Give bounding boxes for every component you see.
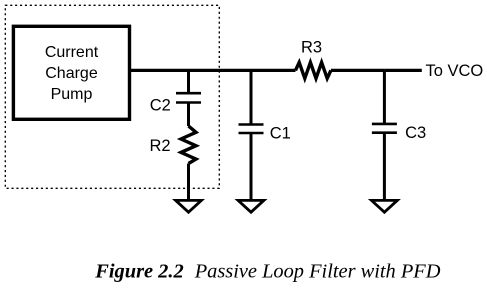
svg-text:R2: R2 <box>150 137 171 155</box>
svg-text:Current: Current <box>45 44 99 61</box>
resistor R2 (vertical zigzag) <box>181 126 196 164</box>
label C2 <box>150 96 171 114</box>
svg-text:C3: C3 <box>405 124 426 142</box>
caption "Figure 2.2 Passive Loop Filter with PFD" <box>94 261 440 283</box>
capacitor C1 <box>239 125 264 134</box>
wire: charge pump output to C2 junction <box>131 69 189 72</box>
resistor R3 (horizontal zigzag) <box>296 62 331 78</box>
svg-text:C1: C1 <box>270 124 291 142</box>
svg-text:Charge: Charge <box>45 65 98 82</box>
label C3 <box>405 124 426 142</box>
label C1 <box>270 124 291 142</box>
wire: C1 bottom plate to ground <box>250 133 253 200</box>
wire: C3 junction down to C3 top plate <box>383 70 386 124</box>
svg-text:Pump: Pump <box>51 86 93 103</box>
wire: C1 junction down to C1 top plate <box>250 70 253 124</box>
svg-text:Figure 2.2Passive Loop Filter: Figure 2.2Passive Loop Filter with PFD <box>94 261 440 283</box>
wire: C2 junction to C1 junction <box>189 69 252 72</box>
charge pump block label "Current Charge Pump" <box>45 44 99 103</box>
wire: R2 bottom to ground <box>187 164 190 201</box>
wire: C2 bottom plate to R2 top <box>187 103 190 127</box>
ground (below C3) <box>372 200 398 212</box>
charge pump block <box>13 26 129 119</box>
capacitor C2 <box>176 93 201 102</box>
node label "To VCO" <box>426 62 484 80</box>
svg-text:R3: R3 <box>301 39 322 57</box>
wire: C1 junction to R3 left terminal <box>251 69 296 72</box>
ground (below C1) <box>238 200 264 212</box>
capacitor C3 <box>372 124 397 133</box>
label R3 <box>301 39 322 57</box>
wire: C3 bottom plate to ground <box>383 133 386 200</box>
label R2 <box>150 137 171 155</box>
dashed boundary box (charge-pump / PFD section) <box>5 5 219 188</box>
ground (below R2) <box>176 200 202 212</box>
svg-text:To VCO: To VCO <box>426 62 484 80</box>
svg-text:C2: C2 <box>150 96 171 114</box>
wire: R3 right terminal to C3 junction <box>331 69 385 72</box>
wire: C3 junction to VCO output stub <box>384 69 421 72</box>
wire: C2 junction down to C2 top plate <box>187 70 190 93</box>
